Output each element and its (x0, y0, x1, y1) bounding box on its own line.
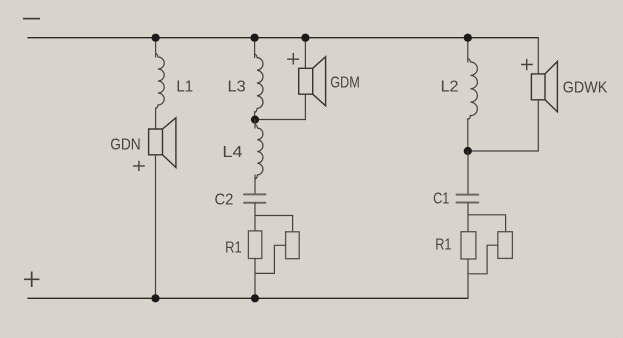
wire GDN to bottom rail (155, 155, 157, 298)
capacitor C2 (244, 194, 266, 202)
node junction top rail at GDM (301, 34, 309, 42)
inductor L1 (156, 54, 165, 109)
wire parallel resistor return (C2 branch) (256, 245, 286, 273)
svg-text:GDM: GDM (330, 75, 360, 92)
node junction bottom rail at R1 (251, 294, 259, 302)
node junction top rail at L1 (152, 34, 160, 42)
svg-text:L2: L2 (441, 79, 459, 96)
wire GDM top lead (304, 38, 306, 69)
capacitor C1 (457, 195, 479, 203)
wire L2 top lead (467, 38, 469, 62)
wire R1 to bottom rail corner (467, 259, 469, 298)
minus terminal label (23, 18, 40, 20)
resistor parallel (C1 branch) (498, 232, 513, 259)
plus terminal label (24, 272, 40, 288)
node junction below L3 (251, 116, 259, 124)
svg-text:R1: R1 (435, 237, 451, 254)
wire bottom rail (28, 297, 468, 299)
speaker GDWK (531, 62, 557, 112)
svg-text:L3: L3 (228, 78, 246, 95)
wire parallel resistor return (C1 branch) (468, 245, 498, 274)
wire top rail (28, 37, 538, 39)
svg-text:R1: R1 (225, 239, 242, 256)
inductor L2 (468, 59, 478, 120)
wire GDWK drop (537, 38, 539, 74)
svg-text:L4: L4 (222, 144, 242, 161)
wire L4 top lead (254, 120, 256, 128)
wire split to R1 (C1 branch) (467, 215, 469, 232)
polarity plus GDM (287, 53, 299, 65)
wire L3 top lead (254, 38, 256, 58)
wire split to R1 (254, 216, 256, 231)
wire C1 to split node (467, 203, 469, 215)
wire GDWK to node (468, 100, 539, 151)
wire C2 to split node (254, 203, 256, 216)
node junction bottom rail at GDN (151, 294, 159, 302)
wire L4 to C2 (254, 175, 256, 194)
svg-text:L1: L1 (176, 78, 193, 95)
inductor L3 (255, 54, 263, 113)
speaker GDM (299, 57, 326, 106)
inductor L4 (255, 125, 263, 180)
resistor R1 (C2 branch) (248, 231, 261, 259)
wire R1 to bottom rail (254, 259, 256, 299)
polarity plus GDWK (521, 59, 533, 71)
wire L3 to node (254, 112, 256, 120)
node junction below L2 (464, 147, 472, 155)
polarity plus GDN (133, 161, 145, 171)
wire split to right resistor (255, 216, 293, 232)
resistor parallel (C2 branch) (286, 232, 300, 259)
wire L2 to node (467, 119, 469, 151)
node junction top rail at L3 (251, 34, 259, 42)
resistor R1 (C1 branch) (461, 232, 476, 259)
wire split to right resistor (C1 branch) (468, 215, 506, 232)
svg-text:GDWK: GDWK (563, 79, 608, 96)
speaker GDN (149, 118, 176, 168)
svg-text:GDN: GDN (110, 136, 141, 153)
wire L1 to GDN (155, 108, 157, 129)
wire GDM to node (255, 94, 305, 119)
wire node to C1 (467, 151, 469, 194)
wire L1 top lead (155, 38, 157, 57)
svg-text:C1: C1 (433, 191, 449, 208)
svg-text:C2: C2 (215, 192, 234, 209)
node junction top rail at L2 (464, 34, 472, 42)
